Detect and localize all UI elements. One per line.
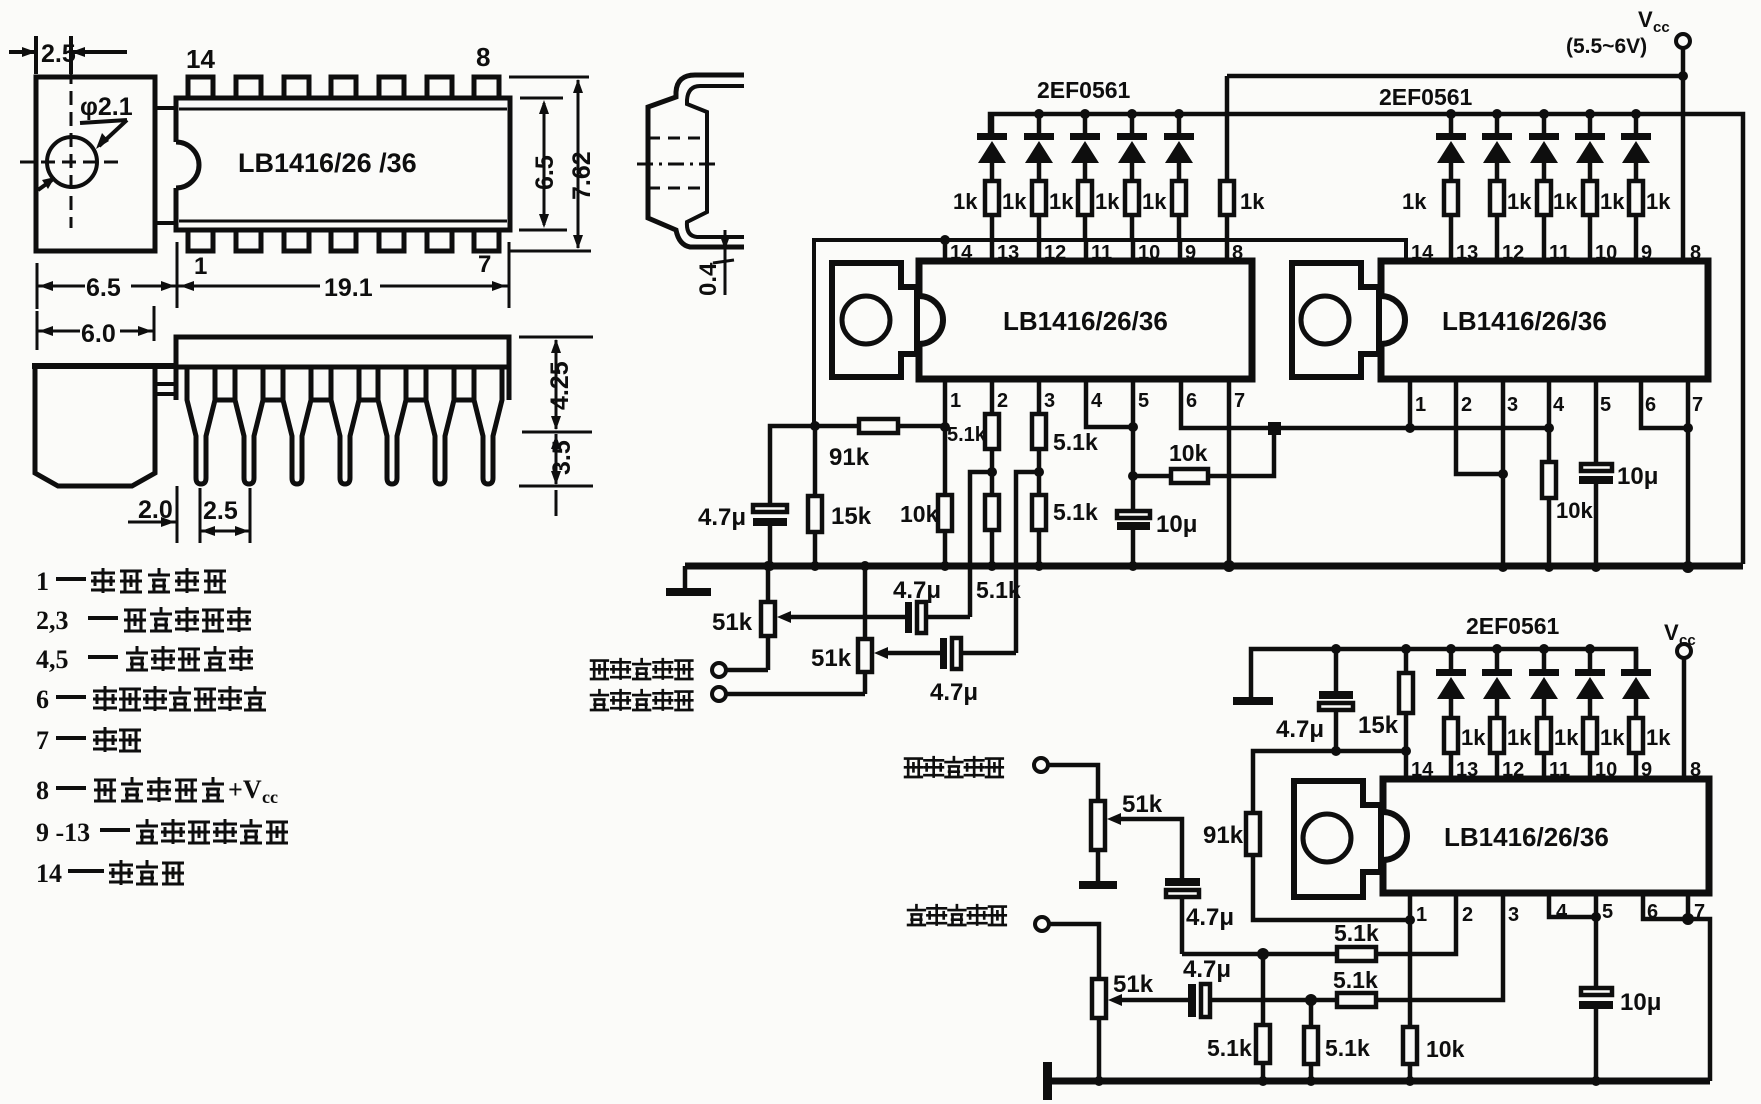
resistor 1k pin10 xyxy=(1125,181,1139,240)
resistor 1k c12 xyxy=(1490,718,1504,779)
svg-text:7: 7 xyxy=(1692,394,1703,416)
svg-text:51k: 51k xyxy=(712,609,753,636)
svg-text:6.5: 6.5 xyxy=(86,274,121,302)
svg-text:1k: 1k xyxy=(1142,189,1167,214)
svg-text:1k: 1k xyxy=(1095,189,1120,214)
svg-text:5.1k: 5.1k xyxy=(1325,1035,1370,1061)
terminal left ch lower xyxy=(1035,917,1049,931)
svg-text:10μ: 10μ xyxy=(1617,463,1658,490)
svg-text:6.5: 6.5 xyxy=(531,155,559,190)
U3 mounting tab xyxy=(1294,781,1381,897)
svg-text:2.5: 2.5 xyxy=(41,40,76,68)
svg-text:3: 3 xyxy=(1508,904,1519,926)
svg-text:14: 14 xyxy=(36,859,62,888)
svg-text:51k: 51k xyxy=(1122,791,1163,818)
wire pin7 IC2 xyxy=(1686,379,1691,567)
terminal right ch input xyxy=(712,663,726,677)
svg-text:2EF0561: 2EF0561 xyxy=(1037,77,1131,103)
wire Vcc to pin8 xyxy=(1682,658,1687,779)
potentiometer 51k right lower xyxy=(1091,801,1105,881)
svg-text:1k: 1k xyxy=(1507,189,1532,214)
capacitor 4.7u feedback xyxy=(753,505,787,566)
dim 2.5 pins xyxy=(199,488,202,543)
LED D9 xyxy=(1164,114,1194,181)
svg-text:6: 6 xyxy=(36,685,49,714)
resistor 5.1k pin2 lower xyxy=(985,495,999,566)
svg-text:10k: 10k xyxy=(1556,498,1593,523)
wire Vcc rail top xyxy=(1227,74,1683,79)
svg-text:V: V xyxy=(1638,7,1653,32)
svg-text:4.7μ: 4.7μ xyxy=(1186,904,1234,931)
svg-text:6: 6 xyxy=(1186,390,1197,412)
capacitor 4.7u coupling R lower xyxy=(1165,878,1200,954)
phi 2.1 hole circle xyxy=(47,137,97,187)
svg-text:1: 1 xyxy=(36,567,49,596)
svg-text:5.1k: 5.1k xyxy=(1053,429,1098,455)
dim row 6.5 / 19.1 xyxy=(36,263,39,309)
svg-text:5: 5 xyxy=(1600,394,1611,416)
svg-text:8: 8 xyxy=(36,776,49,805)
svg-text:4.7μ: 4.7μ xyxy=(893,577,941,604)
U1 mounting tab xyxy=(832,263,917,377)
Vcc terminal xyxy=(1676,34,1690,48)
resistor 15k xyxy=(808,426,822,566)
svg-text:3: 3 xyxy=(1507,394,1518,416)
wire pin2 IC2 branch xyxy=(1456,379,1503,474)
svg-text:7: 7 xyxy=(1234,390,1245,412)
svg-text:LB1416/26/36: LB1416/26/36 xyxy=(1003,306,1168,336)
7 tapered pins bottom view xyxy=(187,367,502,484)
svg-text:4.25: 4.25 xyxy=(546,361,574,410)
wire pin2 branch xyxy=(970,472,992,617)
svg-text:1k: 1k xyxy=(1600,725,1625,750)
op-amp U3 LB1416 body xyxy=(1383,779,1709,893)
node bus dots group2 xyxy=(1446,109,1456,119)
op-amp U1 LB1416 body xyxy=(919,261,1252,379)
svg-text:7: 7 xyxy=(478,251,491,278)
svg-text:19.1: 19.1 xyxy=(324,274,373,302)
Vcc terminal lower xyxy=(1677,644,1691,658)
dim 7.62 right side xyxy=(509,76,589,79)
wire pin6 rail to IC2 xyxy=(1181,379,1549,428)
resistor 1k pin9 xyxy=(1172,181,1186,240)
side view of package with bent leads xyxy=(648,75,744,247)
ground bus wire xyxy=(685,563,1743,570)
resistor 15k lower xyxy=(1399,649,1413,779)
resistor 1k pin10b xyxy=(1583,181,1597,261)
svg-text:+V: +V xyxy=(228,775,262,804)
wire pin14 loop xyxy=(1253,751,1406,813)
svg-text:1k: 1k xyxy=(1002,189,1027,214)
LED D11c xyxy=(1529,649,1559,718)
svg-text:51k: 51k xyxy=(811,645,852,672)
potentiometer 51k right ch xyxy=(761,566,775,670)
dimension 2.5 (tab) xyxy=(9,36,127,74)
U2 mounting tab xyxy=(1292,263,1379,377)
svg-text:8: 8 xyxy=(476,42,490,72)
LED D9b xyxy=(1621,114,1651,181)
wire pin4 pin5 IC3 xyxy=(1549,893,1596,917)
label: left channel input (upper) xyxy=(590,689,694,711)
body bar xyxy=(176,337,509,400)
wire pin1 down xyxy=(943,379,948,495)
svg-text:3: 3 xyxy=(1044,390,1055,412)
svg-text:V: V xyxy=(1664,620,1679,645)
wire pin2 IC3 xyxy=(1182,893,1456,954)
capacitor 4.7u coupling L lower xyxy=(1188,984,1210,1017)
LED D10b xyxy=(1575,114,1605,181)
LED D10 xyxy=(1117,114,1147,181)
capacitor 4.7u coupling L xyxy=(940,638,1016,669)
connector tab-body xyxy=(155,384,176,394)
svg-text:4: 4 xyxy=(1556,901,1568,923)
bottom pins row xyxy=(188,230,499,251)
dim 4.25 xyxy=(519,336,593,339)
svg-text:1k: 1k xyxy=(953,189,978,214)
LED D10c xyxy=(1575,649,1605,718)
svg-text:4.7μ: 4.7μ xyxy=(698,504,746,531)
resistor 91k lower xyxy=(1246,813,1410,920)
svg-text:1: 1 xyxy=(194,253,207,280)
ground symbol xyxy=(683,566,688,588)
LED D11b xyxy=(1529,114,1559,181)
terminal right ch lower xyxy=(1034,758,1048,772)
svg-text:2EF0561: 2EF0561 xyxy=(1466,613,1560,639)
svg-text:4.7μ: 4.7μ xyxy=(1183,956,1231,983)
resistor 1k c10 xyxy=(1583,718,1597,779)
resistor 1k c9 xyxy=(1629,718,1643,779)
svg-text:1k: 1k xyxy=(1461,725,1486,750)
svg-text:5.1k: 5.1k xyxy=(947,424,987,446)
svg-text:3.5: 3.5 xyxy=(548,440,576,475)
svg-text:1k: 1k xyxy=(1554,725,1579,750)
svg-text:LB1416/26/36: LB1416/26/36 xyxy=(1442,306,1607,336)
resistor 1k pin11b xyxy=(1537,181,1551,261)
LED D13c xyxy=(1436,649,1466,718)
svg-text:10μ: 10μ xyxy=(1156,511,1197,538)
svg-text:2EF0561: 2EF0561 xyxy=(1379,84,1473,110)
wire pin7 down xyxy=(1227,379,1232,566)
svg-text:15k: 15k xyxy=(831,503,872,530)
svg-text:1k: 1k xyxy=(1507,725,1532,750)
svg-text:2.5: 2.5 xyxy=(203,497,238,525)
label: right channel input (upper) xyxy=(590,658,694,680)
capacitor 10u IC3 xyxy=(1579,988,1613,1081)
svg-text:1: 1 xyxy=(1416,904,1427,926)
resistor 5.1k horiz 2 xyxy=(1337,993,1376,1007)
wire pin3 IC3 xyxy=(1211,893,1503,1000)
svg-text:4: 4 xyxy=(1553,394,1565,416)
svg-text:5.1k: 5.1k xyxy=(1053,499,1098,525)
resistor 1k pin12b xyxy=(1490,181,1504,261)
wire pin3 branch xyxy=(1016,472,1039,653)
label: left channel input (lower) xyxy=(907,904,1007,926)
svg-text:4,5: 4,5 xyxy=(36,645,69,674)
dim 0.4 xyxy=(724,230,727,295)
svg-text:15k: 15k xyxy=(1358,712,1399,739)
resistor 5.1k vert right xyxy=(1304,1000,1318,1081)
resistor 5.1k pin3 lower xyxy=(1032,495,1046,566)
LED D12c xyxy=(1482,649,1512,718)
svg-text:1k: 1k xyxy=(1600,189,1625,214)
side (bottom) view: tab xyxy=(35,366,155,486)
svg-text:6: 6 xyxy=(1645,394,1656,416)
svg-text:1: 1 xyxy=(1415,394,1426,416)
op-amp U2 LB1416 body xyxy=(1381,261,1708,379)
capacitor 10u pin5 xyxy=(1117,511,1150,566)
wire LED bus lower xyxy=(1251,649,1636,697)
svg-text:φ2.1: φ2.1 xyxy=(80,93,133,121)
label: right channel input (lower) xyxy=(904,756,1004,778)
svg-text:1k: 1k xyxy=(1646,725,1671,750)
svg-text:9 -13: 9 -13 xyxy=(36,818,90,847)
wire LED anode bus xyxy=(990,114,1743,564)
svg-text:5.1k: 5.1k xyxy=(1207,1035,1252,1061)
wire pin8 IC2 riser xyxy=(1681,76,1686,261)
wire pin3 IC2 down xyxy=(1501,379,1506,567)
resistor 5.1k pin3 upper xyxy=(1032,379,1046,495)
capacitor 4.7u pin14 xyxy=(1319,649,1353,751)
LED D13 xyxy=(977,114,1007,181)
svg-text:2: 2 xyxy=(1461,394,1472,416)
top pins row xyxy=(188,77,499,98)
svg-text:4.7μ: 4.7μ xyxy=(1276,716,1324,743)
svg-text:5: 5 xyxy=(1138,390,1149,412)
IC top view body xyxy=(176,98,510,230)
svg-text:2.0: 2.0 xyxy=(138,496,173,524)
dim 6.5 right side xyxy=(520,97,563,100)
capacitor 4.7u coupling R xyxy=(905,602,970,633)
potentiometer 51k left ch xyxy=(858,566,872,694)
capacitor 10u pin5 IC2 xyxy=(1579,379,1613,567)
svg-text:1: 1 xyxy=(950,390,961,412)
dim 2.0 xyxy=(176,486,179,543)
crosshair dashed xyxy=(70,70,73,228)
LED D9c xyxy=(1621,649,1651,718)
svg-text:0.4: 0.4 xyxy=(695,262,722,296)
resistor 1k c11 xyxy=(1537,718,1551,779)
resistor 1k pin11 xyxy=(1078,181,1092,240)
svg-text:cc: cc xyxy=(1679,632,1696,649)
svg-text:4: 4 xyxy=(1091,390,1103,412)
wire pin4 to pin5 xyxy=(1086,379,1133,427)
svg-text:7: 7 xyxy=(36,726,49,755)
svg-text:10μ: 10μ xyxy=(1620,989,1661,1016)
svg-text:(5.5~6V): (5.5~6V) xyxy=(1566,35,1647,58)
resistor 1k pin13b xyxy=(1444,181,1458,261)
resistor 1k pin9b xyxy=(1629,181,1643,261)
resistor 10k pin5-pin6 xyxy=(1133,428,1274,483)
wire pin7 IC3 xyxy=(1686,893,1691,919)
svg-text:1k: 1k xyxy=(1646,189,1671,214)
resistor 1k c13 xyxy=(1444,718,1458,779)
svg-text:5.1k: 5.1k xyxy=(1334,920,1379,946)
LED D12b xyxy=(1482,114,1512,181)
potentiometer 51k left lower xyxy=(1092,979,1106,1081)
resistor 91k xyxy=(859,419,898,433)
wire pin5 down xyxy=(1131,379,1136,511)
wire Vcc down xyxy=(1681,48,1686,76)
svg-text:2,3: 2,3 xyxy=(36,606,69,635)
resistor 1k pin13 xyxy=(985,181,999,240)
svg-text:cc: cc xyxy=(1653,19,1670,36)
resistor 10k pin1 xyxy=(938,495,952,531)
svg-text:4.7μ: 4.7μ xyxy=(930,679,978,706)
svg-text:5: 5 xyxy=(1602,901,1613,923)
svg-text:5.1k: 5.1k xyxy=(1333,967,1378,993)
svg-text:14: 14 xyxy=(186,44,215,74)
LED D12 xyxy=(1024,114,1054,181)
resistor 5.1k horiz 1 xyxy=(1337,947,1376,961)
dim 3.5 xyxy=(519,485,593,488)
resistor 10k pin4 IC2 xyxy=(1542,379,1556,567)
wire pin6 pin7 IC3 xyxy=(1643,893,1710,1081)
svg-text:1k: 1k xyxy=(1049,189,1074,214)
svg-text:10k: 10k xyxy=(900,501,939,527)
wire pin5 IC3 xyxy=(1594,893,1599,988)
resistor 5.1k vert left xyxy=(1256,954,1270,1081)
svg-text:7.62: 7.62 xyxy=(568,151,596,200)
dim 6.0 xyxy=(36,311,39,350)
svg-text:1k: 1k xyxy=(1240,189,1265,214)
svg-text:2: 2 xyxy=(1462,904,1473,926)
ground symbol bottom xyxy=(1043,1062,1052,1100)
node bus dots group1 xyxy=(1034,109,1044,119)
ground top-left lower xyxy=(1233,697,1273,705)
resistor 1k pin8 xyxy=(1220,181,1234,240)
wire feedback rail left xyxy=(770,426,945,505)
svg-text:10k: 10k xyxy=(1426,1036,1465,1062)
svg-text:91k: 91k xyxy=(829,444,870,471)
LED D13b xyxy=(1436,114,1466,181)
wire pin6 IC2 xyxy=(1641,379,1688,428)
terminal left ch input xyxy=(712,687,726,701)
svg-text:51k: 51k xyxy=(1113,971,1154,998)
pin1 notch bump xyxy=(172,142,182,188)
svg-text:2: 2 xyxy=(997,390,1008,412)
svg-text:91k: 91k xyxy=(1203,822,1244,849)
resistor 1k pin12 xyxy=(1032,181,1046,240)
svg-text:cc: cc xyxy=(262,787,278,807)
LED D11 xyxy=(1070,114,1100,181)
wire pin1 IC2 xyxy=(1408,379,1413,428)
svg-text:1k: 1k xyxy=(1553,189,1578,214)
wire pin1 IC3 down with 10k xyxy=(1403,893,1417,1081)
resistor 5.1k pin2 upper xyxy=(985,379,999,495)
svg-text:LB1416/26 /36: LB1416/26 /36 xyxy=(238,148,417,178)
wire pin8 IC1 riser xyxy=(1225,76,1230,181)
svg-text:1k: 1k xyxy=(1402,189,1427,214)
svg-text:10k: 10k xyxy=(1169,440,1208,466)
svg-text:6.0: 6.0 xyxy=(81,320,116,348)
stubs tab to body xyxy=(155,106,176,110)
pin ticks IC1 top xyxy=(943,240,948,261)
node Vcc junction xyxy=(1678,71,1688,81)
front view tab rectangle xyxy=(36,77,155,251)
bottom ground bus xyxy=(1050,1078,1710,1085)
wire pin14 top rail xyxy=(814,240,1406,426)
svg-text:5.1k: 5.1k xyxy=(976,577,1021,603)
svg-text:LB1416/26/36: LB1416/26/36 xyxy=(1444,822,1609,852)
